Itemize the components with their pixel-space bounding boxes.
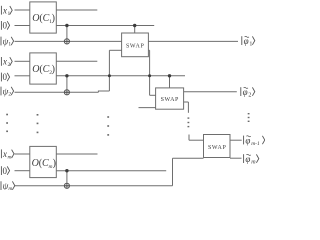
wire xm out <box>56 153 97 155</box>
wire psi2 <box>15 91 99 93</box>
wire a1 out <box>56 25 154 27</box>
label ket 0 (block m) <box>1 166 9 176</box>
label ket phi2 out <box>241 87 255 99</box>
control dot swap1 <box>133 24 136 27</box>
oracle box O(Cm) <box>30 146 57 177</box>
control dot cnotm <box>65 169 68 172</box>
svg-text:): ) <box>53 158 56 169</box>
wire swap2 ctrl <box>169 76 171 88</box>
wire psim riser <box>172 158 174 186</box>
label ket phim out <box>244 154 259 166</box>
label ket 0 (block1) <box>1 21 9 31</box>
svg-text:m: m <box>8 154 12 160</box>
wire swap2 upper-left stub <box>150 94 156 96</box>
wire x1 out <box>56 9 97 11</box>
junction node B <box>148 74 151 77</box>
label ket phi1 out <box>242 36 255 48</box>
wire swap2 lower-left <box>139 107 156 109</box>
wire swap1 lower-right stub <box>148 49 149 51</box>
label ket xm <box>1 149 14 160</box>
svg-text:): ) <box>52 13 55 24</box>
wire phim-1 out <box>230 139 242 141</box>
label ket phim-1 out <box>244 135 265 147</box>
control dot cnot1 <box>65 24 68 27</box>
svg-text:x: x <box>2 57 7 67</box>
svg-text:1: 1 <box>8 42 11 48</box>
wire x2 lead <box>15 60 30 62</box>
swap box U3 <box>204 135 231 158</box>
svg-text:m-1: m-1 <box>251 141 260 147</box>
svg-text:O: O <box>32 13 39 24</box>
wire psi2 hump <box>98 90 109 92</box>
control dot cnot2 <box>65 74 68 77</box>
wire psi2 step <box>97 91 99 93</box>
oracle box O(C2) <box>30 53 57 84</box>
wire swap1 descender <box>149 50 151 95</box>
svg-text:x: x <box>2 5 7 15</box>
wire psim upper <box>173 157 204 159</box>
svg-text:SWAP: SWAP <box>126 43 144 49</box>
swap box U1 <box>122 33 149 57</box>
dashed continuation swap2-swap3 <box>188 117 190 118</box>
wire xm lead <box>15 153 30 155</box>
svg-text:0: 0 <box>3 72 8 82</box>
cnot target m <box>64 183 69 188</box>
svg-text:0: 0 <box>3 21 8 31</box>
wire x2 out <box>56 60 97 62</box>
wire swap3 feed vertical <box>188 135 190 141</box>
label ket psi2 <box>1 86 14 97</box>
cnot target 1 <box>64 39 69 44</box>
svg-text:m: m <box>251 160 256 166</box>
svg-text:2: 2 <box>8 92 11 98</box>
wire psi2 riser <box>108 50 110 91</box>
wire cnot2 <box>66 76 68 90</box>
svg-text:1: 1 <box>249 42 252 48</box>
svg-text:SWAP: SWAP <box>161 97 179 103</box>
svg-text:): ) <box>52 64 55 75</box>
svg-text:O: O <box>32 64 39 75</box>
svg-text:SWAP: SWAP <box>208 145 226 151</box>
label ket 0 (block2) <box>1 72 9 82</box>
wire swap1 lower-left stub <box>109 49 121 51</box>
wire psim <box>15 185 173 187</box>
wire swap3 upper-left stub <box>189 139 204 141</box>
wire psi1 <box>15 40 122 42</box>
svg-text:2: 2 <box>248 93 251 99</box>
oracle box O(C1) <box>30 2 57 33</box>
wire phim out <box>230 157 242 159</box>
vdots riser column <box>107 116 109 118</box>
wire am out <box>56 170 166 172</box>
control dot swap2 <box>168 74 171 77</box>
svg-text:x: x <box>2 149 7 159</box>
wire cnot1 <box>66 26 68 39</box>
vdots oracle column <box>37 114 39 116</box>
wire a2 out <box>56 75 185 77</box>
svg-text:m: m <box>8 186 12 190</box>
wire x1 lead <box>15 9 30 11</box>
cnot target 2 <box>64 90 69 95</box>
wire a1 lead <box>15 25 30 27</box>
dashed continuation outputs <box>248 113 250 114</box>
label ket x1 <box>1 5 12 16</box>
swap box U2 <box>156 88 184 109</box>
wire swap1 ctrl <box>134 26 136 34</box>
wire phi2 out <box>184 91 237 93</box>
label ket x2 <box>1 57 12 68</box>
wire am lead <box>15 170 30 172</box>
label ket psim <box>1 181 15 192</box>
svg-text:O: O <box>32 158 39 169</box>
wire swap2 lower-right stub <box>184 101 189 103</box>
label ket psi1 <box>1 36 14 47</box>
wire a2 lead <box>15 75 30 77</box>
svg-text:0: 0 <box>3 166 8 176</box>
wire phi1 out <box>148 40 238 42</box>
wire cnotm <box>66 171 68 184</box>
junction node A <box>108 74 111 77</box>
wire swap2 descender <box>187 102 189 113</box>
vdots left labels <box>6 114 8 116</box>
